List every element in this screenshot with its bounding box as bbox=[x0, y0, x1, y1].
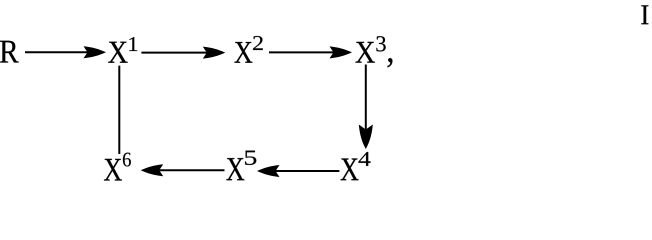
atom X4 (X) bbox=[341, 158, 359, 180]
arrow R to X1 bbox=[25, 46, 106, 58]
atom X5 (X) bbox=[226, 158, 244, 180]
arrow X5 to X6 bbox=[141, 164, 225, 176]
arrow X1 to X2 bbox=[141, 47, 225, 59]
atom X3 superscript 3 bbox=[376, 36, 385, 51]
arrow X3 down to X4 bbox=[359, 65, 373, 150]
atom X1 (X) bbox=[108, 42, 127, 63]
wire X1 down to X6 bbox=[118, 66, 120, 154]
atom R bbox=[0, 41, 19, 63]
arrow X2 to X3 bbox=[269, 46, 352, 58]
atom X3 (X) bbox=[356, 42, 375, 63]
atom X4 superscript 4 bbox=[359, 152, 371, 166]
formula label I bbox=[641, 5, 648, 24]
atom X6 (X) bbox=[104, 159, 122, 181]
atom X1 superscript 1 bbox=[129, 37, 137, 51]
atom X2 superscript 2 bbox=[253, 36, 263, 50]
atom X6 superscript 6 bbox=[123, 153, 131, 167]
atom X5 superscript 5 bbox=[245, 151, 256, 165]
comma after X3 bbox=[388, 58, 393, 67]
arrow X4 to X5 bbox=[257, 165, 339, 177]
atom X2 (X) bbox=[234, 42, 252, 63]
